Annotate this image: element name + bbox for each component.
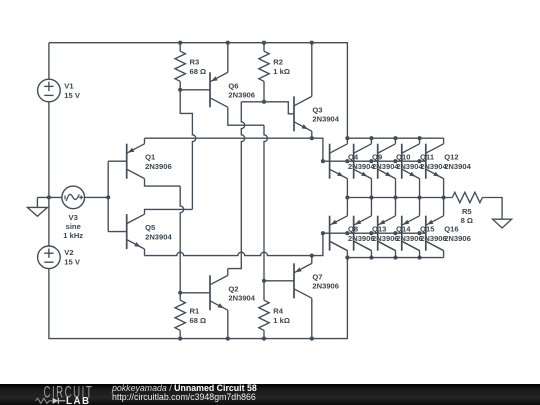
svg-text:Q16: Q16 xyxy=(444,225,458,234)
svg-text:Q4: Q4 xyxy=(348,153,359,162)
svg-text:Q5: Q5 xyxy=(145,223,156,232)
svg-text:sine: sine xyxy=(66,222,81,231)
svg-text:V3: V3 xyxy=(69,213,78,222)
svg-text:R4: R4 xyxy=(273,306,283,315)
svg-text:Q6: Q6 xyxy=(228,81,238,90)
svg-text:2N3906: 2N3906 xyxy=(444,234,471,243)
svg-text:2N3904: 2N3904 xyxy=(312,115,339,124)
svg-text:2N3906: 2N3906 xyxy=(145,162,172,171)
svg-text:Q15: Q15 xyxy=(420,225,435,234)
svg-text:2N3906: 2N3906 xyxy=(348,234,375,243)
svg-text:V2: V2 xyxy=(64,248,73,257)
svg-text:LAB: LAB xyxy=(66,396,91,405)
svg-text:2N3904: 2N3904 xyxy=(444,162,471,171)
svg-text:Q1: Q1 xyxy=(145,153,156,162)
svg-text:8 Ω: 8 Ω xyxy=(461,216,473,225)
svg-text:V1: V1 xyxy=(64,82,74,91)
svg-text:Q12: Q12 xyxy=(444,153,458,162)
svg-text:Q7: Q7 xyxy=(312,272,322,281)
svg-text:R2: R2 xyxy=(273,57,283,66)
svg-text:2N3906: 2N3906 xyxy=(396,234,423,243)
svg-text:68 Ω: 68 Ω xyxy=(190,316,207,325)
svg-text:15 V: 15 V xyxy=(64,258,81,267)
svg-text:Q14: Q14 xyxy=(396,225,411,234)
svg-text:R3: R3 xyxy=(190,57,200,66)
svg-text:Q8: Q8 xyxy=(348,225,358,234)
svg-text:1 kΩ: 1 kΩ xyxy=(273,316,290,325)
svg-text:Q10: Q10 xyxy=(396,153,410,162)
svg-text:2N3906: 2N3906 xyxy=(372,234,399,243)
svg-text:2N3906: 2N3906 xyxy=(228,91,255,100)
svg-text:R5: R5 xyxy=(462,207,472,216)
svg-text:2N3906: 2N3906 xyxy=(312,282,339,291)
svg-text:R1: R1 xyxy=(190,306,200,315)
svg-text:Q11: Q11 xyxy=(420,153,435,162)
svg-text:Q3: Q3 xyxy=(312,105,322,114)
svg-text:Q13: Q13 xyxy=(372,225,386,234)
svg-text:2N3904: 2N3904 xyxy=(228,294,255,303)
svg-text:Q9: Q9 xyxy=(372,153,382,162)
svg-text:2N3906: 2N3906 xyxy=(420,234,447,243)
svg-text:15 V: 15 V xyxy=(64,91,81,100)
svg-text:http://circuitlab.com/c3948gm7: http://circuitlab.com/c3948gm7dh866 xyxy=(112,392,256,402)
svg-text:1 kΩ: 1 kΩ xyxy=(273,67,290,76)
svg-text:68 Ω: 68 Ω xyxy=(190,67,207,76)
svg-text:Q2: Q2 xyxy=(228,284,238,293)
svg-text:1 kHz: 1 kHz xyxy=(63,231,83,240)
svg-text:2N3904: 2N3904 xyxy=(145,232,172,241)
